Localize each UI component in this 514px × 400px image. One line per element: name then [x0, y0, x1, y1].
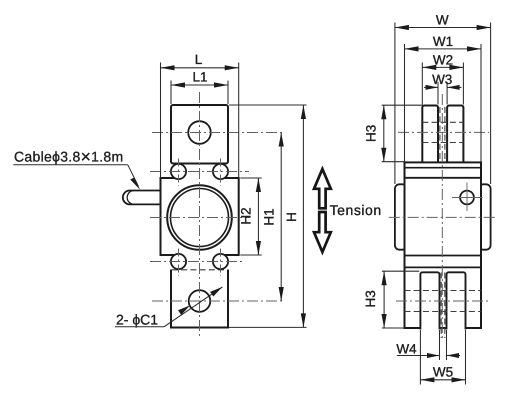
W dimension line — [395, 27, 491, 29]
tension up arrow — [314, 169, 331, 208]
2-phiC1 arrowhead at hole edge — [178, 305, 190, 315]
svg-text:Tension: Tension — [330, 202, 382, 218]
bottom block (top edge hidden/dashed) — [171, 270, 228, 328]
L1 extension lines — [170, 81, 172, 105]
W3 extension lines — [437, 82, 439, 105]
W arrows — [395, 25, 409, 30]
W4 arrows (outside pointing in) — [427, 353, 440, 358]
svg-text:H1: H1 — [262, 208, 277, 225]
vertical stub centerline bottom-left relief — [178, 249, 180, 277]
hidden top hole lower line — [422, 142, 463, 144]
H3 bottom extension lines — [382, 270, 419, 272]
svg-text:W1: W1 — [433, 34, 453, 49]
svg-text:W5: W5 — [433, 365, 453, 380]
W1 arrows — [405, 46, 419, 51]
H3 top extension lines — [382, 104, 423, 106]
svg-text:L1: L1 — [192, 70, 207, 85]
svg-text:W: W — [436, 13, 449, 28]
top band line 2 — [405, 177, 482, 179]
top hole centerline — [398, 131, 489, 133]
hidden edges in bottom clevis centre bar — [440, 273, 442, 339]
right view centerlines — [389, 94, 495, 338]
vertical stub centerline top-right relief — [220, 159, 222, 187]
W2 extension lines — [421, 63, 423, 105]
W1 extension lines — [404, 44, 406, 162]
bottom hole horizontal centerline — [152, 300, 285, 302]
top band line 1 — [405, 167, 482, 169]
svg-text:W3: W3 — [432, 72, 452, 87]
big bore horizontal centerline — [150, 217, 250, 219]
H2 arrowheads — [256, 178, 261, 192]
bottom band line 1 — [405, 255, 482, 257]
top loading hole — [188, 121, 211, 144]
svg-text:L: L — [195, 52, 203, 67]
H3 top arrows — [381, 105, 386, 119]
L extension lines — [160, 63, 162, 179]
gland crosshair horizontal — [452, 197, 483, 199]
W1 dimension line — [405, 48, 482, 50]
cable leader arrowhead — [130, 178, 140, 190]
bottom band line 2 — [405, 266, 482, 268]
bottom block hidden top edge — [172, 269, 227, 271]
W2 arrows — [422, 65, 436, 70]
H3 bottom arrows — [382, 271, 387, 285]
cable end cap — [127, 191, 133, 205]
body horizontal centerline — [389, 216, 495, 218]
right view hidden lines — [405, 107, 482, 338]
H3 bottom dimension line — [383, 271, 385, 328]
svg-text:H: H — [284, 212, 299, 222]
L arrowheads — [161, 65, 307, 327]
hidden tongue left edge in slot — [439, 107, 441, 162]
bottom flexure horizontal centerline — [150, 261, 244, 263]
svg-text:Cableϕ3.8×1.8m: Cableϕ3.8×1.8m — [14, 146, 123, 166]
central block — [161, 178, 239, 255]
right ear — [479, 184, 491, 249]
vertical stub centerline top-left relief — [178, 159, 180, 187]
svg-text:H3: H3 — [363, 290, 378, 307]
H2 extension lines — [240, 177, 261, 179]
redraw bottom edges of bars — [405, 327, 421, 329]
gland crosshair vertical — [466, 183, 468, 212]
cable stub — [123, 191, 162, 205]
relief hole top-left — [171, 164, 186, 179]
2-phiC1 underline — [115, 326, 164, 328]
svg-text:H3: H3 — [363, 125, 378, 142]
L1 dimension line — [171, 84, 228, 86]
side body outline — [405, 162, 482, 328]
relief hole bottom-right — [213, 254, 228, 269]
L1 arrowheads — [171, 82, 185, 87]
hidden bottom hole upper line — [405, 290, 482, 292]
top clevis left prong — [422, 106, 438, 164]
H extension lines — [229, 104, 307, 106]
vertical centerline right view — [441, 94, 443, 338]
left ear — [395, 184, 407, 249]
hidden top hole upper line — [422, 121, 463, 123]
W5 extension lines — [419, 330, 421, 385]
W3 dimension lines (outside) — [424, 86, 438, 88]
W5 dimension line — [420, 379, 465, 381]
L dimension line — [161, 67, 239, 69]
vertical centerline left view — [199, 92, 201, 339]
W5 arrows — [420, 377, 434, 382]
W4 dimension lines (outside) — [397, 355, 440, 357]
vertical stub centerline bottom-right relief — [220, 249, 222, 277]
H1 dimension line — [280, 133, 282, 302]
W4 extension lines — [439, 330, 441, 360]
big bore inner circle — [171, 189, 229, 247]
svg-text:2- ϕC1: 2- ϕC1 — [116, 311, 158, 327]
right view dimension arrowheads — [381, 25, 490, 383]
big bore outer circle — [167, 185, 232, 250]
W3 arrows (outside pointing in) — [426, 85, 439, 90]
H arrowheads — [301, 105, 306, 119]
W2 dimension line — [422, 66, 463, 68]
H1 arrowheads — [279, 133, 284, 147]
H2 dimension line — [257, 178, 259, 255]
svg-text:W4: W4 — [396, 342, 417, 357]
relief hole bottom-left — [171, 254, 186, 269]
hidden bottom hole lower line — [405, 311, 482, 313]
top clevis right prong — [447, 106, 463, 164]
tension down arrow — [314, 212, 331, 252]
2-phiC1 leader line — [164, 287, 222, 327]
svg-text:H2: H2 — [239, 207, 254, 224]
top flexure horizontal centerline — [150, 171, 249, 173]
2-phiC1 arrowhead outer — [210, 287, 222, 297]
bottom hole centerline — [396, 300, 488, 302]
bottom loading hole — [189, 290, 211, 312]
top hole horizontal centerline — [152, 132, 285, 134]
H dimension line — [302, 105, 304, 327]
top block — [171, 105, 228, 164]
bottom clevis left slot — [420, 272, 439, 329]
H3 top dimension line — [383, 105, 385, 162]
relief hole top-right — [213, 164, 228, 179]
bottom clevis right slot — [447, 272, 466, 329]
svg-text:W2: W2 — [433, 52, 453, 67]
cable leader line — [128, 165, 139, 187]
cable label underline — [13, 164, 128, 166]
cable gland circle — [460, 191, 474, 205]
W extension lines — [394, 23, 396, 185]
left view centerlines — [150, 92, 285, 339]
